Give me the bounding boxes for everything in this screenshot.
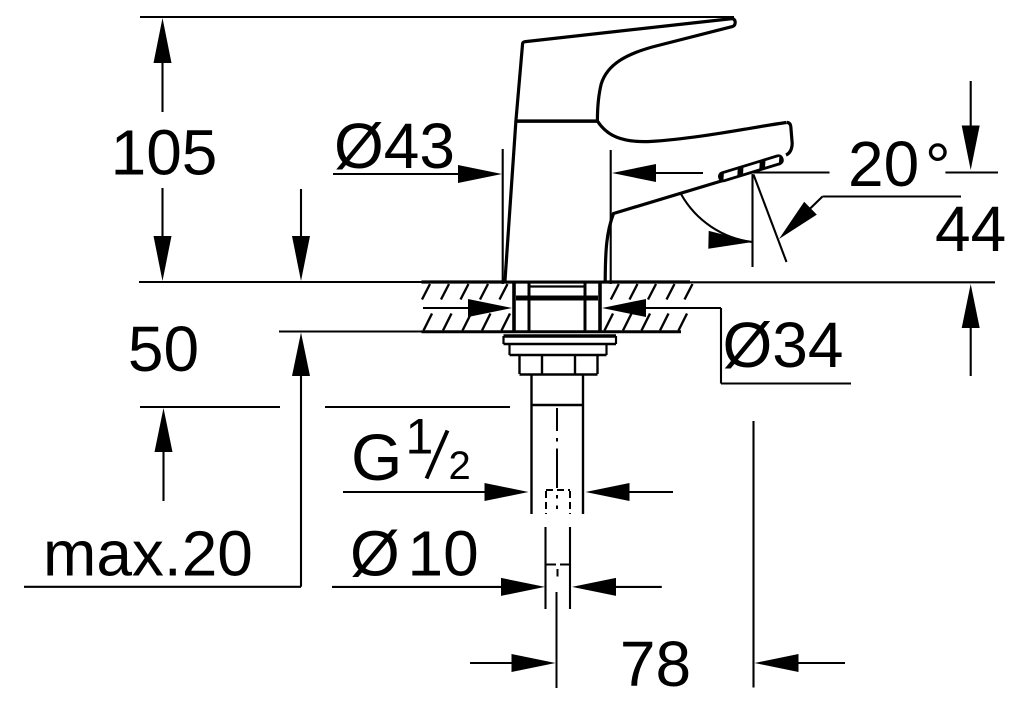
plate B bbox=[508, 344, 510, 355]
deck top line bbox=[139, 281, 422, 283]
svg-text:°: ° bbox=[925, 130, 951, 202]
body left edge bbox=[505, 121, 516, 281]
aerator band bbox=[717, 153, 785, 183]
svg-text:Ø34: Ø34 bbox=[723, 309, 844, 381]
105 dimension bbox=[161, 40, 163, 112]
44 dimension bbox=[970, 81, 972, 127]
hex nut bbox=[518, 355, 520, 374]
top dim line bbox=[140, 16, 734, 18]
svg-text:1: 1 bbox=[406, 409, 434, 465]
G1/2 tube walls bbox=[530, 375, 532, 514]
svg-text:10: 10 bbox=[408, 518, 479, 590]
svg-text:44: 44 bbox=[935, 193, 1006, 265]
faucet body+spout fill bbox=[505, 121, 792, 281]
svg-text:Ø43: Ø43 bbox=[334, 110, 455, 182]
spout top edge bbox=[597, 121, 786, 142]
svg-text:2: 2 bbox=[449, 444, 471, 488]
inner tube solid below break bbox=[544, 527, 546, 609]
svg-text:20: 20 bbox=[848, 128, 919, 200]
shank between deck lines bbox=[512, 283, 516, 331]
svg-text:50: 50 bbox=[128, 313, 199, 385]
body right / spout underside bbox=[605, 181, 723, 281]
right extension line bbox=[752, 421, 754, 688]
centerline bbox=[557, 408, 558, 688]
svg-text:max.20: max.20 bbox=[43, 518, 253, 590]
spout tip right edge bbox=[786, 122, 792, 155]
inner tube dashed (hidden) bbox=[546, 489, 570, 491]
svg-text:Ø: Ø bbox=[350, 518, 400, 590]
deck bottom line bbox=[279, 330, 422, 332]
plate A below deck bbox=[504, 334, 617, 338]
78 dim bbox=[470, 662, 515, 664]
svg-text:G: G bbox=[351, 420, 402, 494]
joint line handle/body bbox=[516, 119, 598, 122]
O34 dimension bbox=[423, 307, 470, 309]
svg-text:105: 105 bbox=[111, 117, 218, 189]
20 degree annotation bbox=[751, 171, 830, 173]
G1/2 dim bbox=[343, 491, 488, 493]
faucet handle fill bbox=[516, 19, 735, 121]
hatch left+right deck blocks bbox=[422, 284, 693, 331]
svg-text:78: 78 bbox=[620, 628, 691, 700]
max.20 dimension bbox=[300, 189, 302, 258]
